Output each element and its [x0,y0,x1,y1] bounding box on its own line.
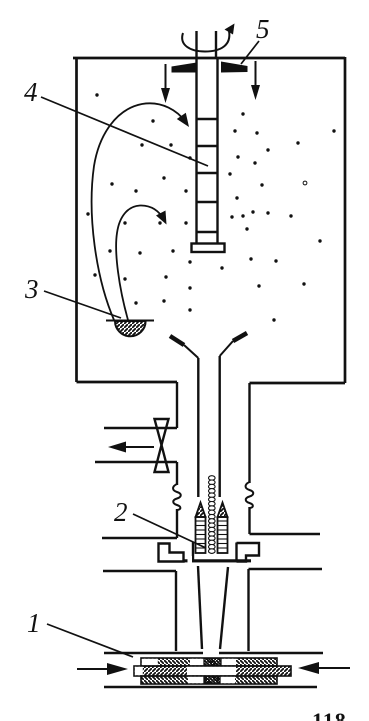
rotating shaft [197,31,217,58]
particle dots [86,93,335,321]
svg-text:5: 5 [256,14,270,44]
funnel to tube [170,333,247,358]
slide plate bottom row [141,676,277,684]
circulation curve outer [92,103,186,320]
bottom duct walls [104,653,323,687]
outlet duct [95,428,177,462]
right wall below chamber [248,383,250,534]
crucible cup [193,543,237,562]
crucible 2 right wall [218,503,228,554]
right lower duct [249,534,323,651]
sample holder rod dotted [209,476,216,554]
svg-text:2: 2 [114,497,128,527]
seal disc 5 right half [221,62,248,73]
svg-text:4: 4 [24,77,38,107]
left wall below chamber [176,382,178,538]
suspension column 4 [192,58,225,252]
svg-text:3: 3 [24,274,39,304]
outlet arrow [108,442,154,453]
air inlet arrow left [77,663,128,675]
valve [155,419,169,472]
air inlet arrow right [298,662,350,674]
crucible 2 left wall [196,503,206,554]
seal disc 5 left half [172,63,197,73]
slide plate middle row 1 [134,666,291,676]
gas inlet arrow left [161,64,170,103]
left lower duct [102,538,177,651]
sampler cup 3 [106,321,154,337]
right bracket [237,543,260,562]
left spring [173,484,181,510]
right spring [246,482,254,508]
lower nozzle [198,566,228,649]
circulation curve inner [116,205,163,320]
svg-text:118: 118 [312,708,347,721]
gas inlet arrow right [251,61,260,100]
left bracket [159,544,184,562]
slide plate top row [141,658,277,666]
rotation arrow ellipse [182,31,229,52]
svg-text:1: 1 [27,608,41,638]
chamber wall [73,57,345,383]
central tube [198,356,219,497]
